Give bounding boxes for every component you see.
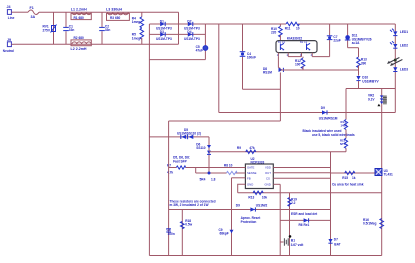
- diode D3: [156, 30, 172, 41]
- svg-text:LED1: LED1: [400, 30, 408, 34]
- svg-text:SS110: SS110: [196, 146, 206, 150]
- svg-text:L1 2.2mH: L1 2.2mH: [71, 8, 87, 12]
- svg-text:10k: 10k: [262, 195, 268, 199]
- capacitor C4: [240, 24, 256, 89]
- diode D2: [184, 20, 200, 31]
- wire step junction: [195, 168, 197, 174]
- diode D8: [263, 67, 283, 75]
- svg-text:47uF: 47uF: [196, 49, 203, 53]
- svg-text:3.67 volt: 3.67 volt: [291, 243, 305, 247]
- svg-text:L3 330uH: L3 330uH: [106, 8, 122, 12]
- svg-text:9.1V: 9.1V: [368, 97, 375, 101]
- wire opto net: [331, 172, 375, 174]
- svg-text:B2 C2: B2 C2: [300, 40, 308, 44]
- wire C4 bottom to Q-chain: [243, 88, 281, 90]
- svg-text:US1M/RS1M: US1M/RS1M: [319, 116, 338, 120]
- wire GND drop: [279, 184, 281, 255]
- svg-text:D9: D9: [236, 203, 240, 207]
- svg-text:1k: 1k: [352, 176, 356, 180]
- IC U2 controller: [245, 157, 273, 189]
- svg-text:R3 680: R3 680: [110, 16, 121, 20]
- varistor RV1: [43, 12, 57, 44]
- svg-text:NTC: NTC: [340, 142, 346, 146]
- svg-text:RS1M: RS1M: [263, 71, 272, 75]
- wire LED chain vertical: [394, 24, 396, 113]
- svg-text:US1M-TP3: US1M-TP3: [156, 37, 172, 41]
- wire node B horizontal: [280, 69, 358, 71]
- heatsink bar: [383, 95, 387, 104]
- diode D11: [345, 24, 372, 48]
- capacitor C1: [63, 12, 74, 44]
- wire node D horizontal: [219, 112, 395, 114]
- switch S1 (light arrows): [387, 58, 402, 66]
- resistor R9: [237, 146, 256, 154]
- wire AC mid vertical: [178, 12, 180, 44]
- wire U2 fb row: [232, 177, 246, 179]
- svg-text:R13: R13: [248, 195, 254, 199]
- svg-text:D1: D1: [160, 20, 164, 24]
- svg-text:D2: D2: [187, 20, 191, 24]
- choke L1 (top winding) with damping resistor R1: [71, 8, 92, 20]
- wire node E horizontal: [209, 151, 346, 153]
- diode D5 pair: [149, 128, 209, 150]
- svg-text:BAT: BAT: [334, 242, 340, 246]
- svg-text:1meg: 1meg: [132, 20, 140, 24]
- wire vertical node A: [218, 24, 220, 113]
- svg-text:a=1A: a=1A: [352, 41, 360, 45]
- wire bottom rail: [149, 255, 381, 257]
- svg-text:use 5, black solid wire leads: use 5, black solid wire leads: [312, 133, 355, 137]
- svg-text:68kpF: 68kpF: [220, 232, 229, 236]
- svg-text:Neutral: Neutral: [3, 49, 14, 53]
- diode D9: [319, 106, 338, 120]
- svg-text:33n: 33n: [69, 28, 75, 32]
- connector J4 (Line input): [7, 5, 15, 20]
- wire U1 pin2-pin3 link: [288, 56, 301, 58]
- svg-text:D3: D3: [160, 30, 164, 34]
- svg-text:GATE: GATE: [247, 166, 255, 170]
- resistor R7 on GATE wire: [167, 163, 245, 174]
- svg-text:R7: R7: [167, 163, 171, 167]
- svg-text:LED3: LED3: [400, 68, 408, 72]
- svg-text:FB: FB: [247, 176, 251, 180]
- svg-text:D4: D4: [187, 30, 191, 34]
- svg-text:ESR and load det: ESR and load det: [291, 212, 318, 216]
- LED LED3: [393, 67, 408, 71]
- wire U1 pin1 down: [277, 57, 279, 68]
- diode D4: [184, 30, 200, 41]
- resistor R12: [295, 57, 305, 70]
- svg-text:100nF: 100nF: [247, 56, 256, 60]
- svg-text:VDD: VDD: [265, 166, 271, 170]
- svg-text:1.8: 1.8: [211, 177, 216, 181]
- svg-text:Cu area for heat sink: Cu area for heat sink: [332, 183, 364, 187]
- resistor R14 upper: [341, 89, 348, 130]
- svg-text:GND: GND: [247, 182, 253, 186]
- svg-text:3A: 3A: [31, 15, 36, 19]
- wire cs net: [280, 219, 330, 221]
- resistor R13: [357, 48, 367, 76]
- svg-text:390: 390: [361, 61, 367, 65]
- wire U2 right pins: [273, 167, 330, 169]
- svg-text:R15: R15: [342, 176, 348, 180]
- capacitor C7: [327, 24, 341, 57]
- wire D11 jog: [348, 47, 359, 49]
- svg-text:22uF: 22uF: [333, 39, 340, 43]
- svg-text:R11: R11: [285, 26, 291, 30]
- dual transistor U1 KIA-type: [276, 36, 317, 57]
- svg-text:140R: 140R: [341, 123, 348, 127]
- svg-text:33n: 33n: [105, 28, 111, 32]
- capacitor C9: [219, 178, 234, 256]
- resistor R10: [271, 24, 282, 41]
- diode D13: [236, 203, 268, 211]
- connector J9 (Neutral input): [3, 38, 14, 53]
- svg-text:US1M-TP3: US1M-TP3: [156, 26, 172, 30]
- wire bridge row2: [149, 33, 205, 35]
- diode D10: [356, 76, 379, 89]
- svg-text:SENSE: SENSE: [247, 171, 257, 175]
- diode D1: [156, 20, 172, 31]
- svg-text:Fast SFP: Fast SFP: [173, 159, 188, 163]
- resistor R16: [363, 218, 384, 229]
- wire bridge bottom: [149, 59, 205, 61]
- svg-text:D7: D7: [334, 237, 338, 241]
- wire FB net: [238, 192, 382, 194]
- svg-text:OUT: OUT: [265, 171, 271, 175]
- svg-text:100n: 100n: [168, 232, 175, 236]
- wire bottom Neutral: [14, 43, 179, 45]
- box power section left: [168, 121, 170, 256]
- svg-text:R1 680: R1 680: [74, 16, 85, 20]
- wire top Line: [14, 11, 28, 13]
- box power section top: [169, 120, 281, 122]
- svg-text:2.2: 2.2: [291, 201, 296, 205]
- wire bridge row1: [149, 23, 205, 25]
- svg-text:US1M-TP3: US1M-TP3: [184, 26, 200, 30]
- bleeder resistor R5: [132, 28, 144, 44]
- resistor R15: [342, 171, 356, 180]
- svg-text:US1M/2: US1M/2: [256, 203, 268, 207]
- capacitor C5: [196, 45, 208, 53]
- resistor R8: [200, 164, 238, 182]
- wire fb right vertical: [330, 152, 332, 256]
- svg-text:CS: CS: [266, 176, 270, 180]
- choke L3 with damping resistor R3: [106, 8, 129, 21]
- svg-text:L2 2.2mH: L2 2.2mH: [71, 47, 87, 51]
- svg-text:GND: GND: [265, 182, 271, 186]
- resistor R19: [288, 197, 297, 206]
- wire bridge left vertical (long DC- bus): [148, 24, 150, 256]
- wire shunt net: [169, 209, 331, 211]
- svg-text:47k: 47k: [249, 146, 255, 150]
- svg-text:D9: D9: [321, 106, 325, 110]
- svg-text:J9: J9: [7, 38, 11, 42]
- diode D6 D7 stack: [207, 137, 211, 173]
- svg-text:R8 10: R8 10: [224, 164, 233, 168]
- fuse F1: [28, 6, 39, 19]
- wire U2 sense row: [196, 172, 227, 174]
- optocoupler U3: [375, 169, 393, 177]
- zener VR2 stack: [368, 89, 384, 256]
- LED LED1: [390, 29, 408, 36]
- svg-text:R6 Re1: R6 Re1: [299, 223, 310, 227]
- resistor R17: [181, 210, 193, 256]
- wire U2 gnd loop: [238, 184, 246, 193]
- svg-text:Line: Line: [8, 16, 15, 20]
- svg-text:KIA339/22: KIA339/22: [287, 36, 302, 40]
- svg-text:R9: R9: [237, 146, 241, 150]
- wire sense drop: [289, 193, 291, 256]
- diode D14: [299, 218, 310, 227]
- svg-text:TL431: TL431: [384, 173, 393, 177]
- LED LED2: [390, 41, 408, 48]
- svg-text:0.5w: 0.5w: [185, 222, 192, 226]
- resistor R13b: [248, 191, 267, 199]
- bleeder resistor R4: [132, 12, 144, 28]
- battery B1: [280, 235, 304, 247]
- svg-text:LED2: LED2: [400, 44, 408, 48]
- diode D12: [328, 237, 340, 246]
- svg-text:275V: 275V: [43, 28, 51, 32]
- svg-text:US1M-TP3: US1M-TP3: [184, 37, 200, 41]
- svg-text:US1M/BYV: US1M/BYV: [362, 79, 379, 83]
- svg-text:5R4: 5R4: [200, 177, 206, 181]
- svg-text:220: 220: [271, 31, 277, 35]
- svg-text:1meg: 1meg: [132, 36, 140, 40]
- svg-text:4.7k: 4.7k: [167, 170, 173, 174]
- svg-text:US1M/SS110 (2): US1M/SS110 (2): [177, 131, 201, 135]
- svg-text:Protection: Protection: [241, 220, 257, 224]
- svg-text:100: 100: [295, 63, 301, 67]
- svg-text:B1 C1: B1 C1: [278, 40, 286, 44]
- svg-text:F1: F1: [30, 6, 34, 10]
- svg-text:m 3W, 2 insulated 2 of 1W: m 3W, 2 insulated 2 of 1W: [170, 203, 209, 207]
- wire DC+ rail: [205, 23, 286, 25]
- wire bridge right vertical: [204, 24, 206, 60]
- capacitor C2: [99, 12, 110, 44]
- resistor R11: [285, 22, 300, 30]
- wire U1 pin4 to C7: [312, 56, 329, 58]
- wire node C horizontal: [346, 88, 395, 90]
- svg-text:10: 10: [296, 26, 300, 30]
- choke L2 (bottom winding) with damping resistor R2: [71, 36, 92, 51]
- svg-text:J4: J4: [7, 5, 11, 9]
- capacitor C10: [166, 228, 175, 236]
- resistor R15 lower: [340, 130, 348, 152]
- polarity triangle: [377, 104, 380, 107]
- svg-text:0.5/1Meg: 0.5/1Meg: [363, 222, 377, 226]
- node junction: [208, 172, 211, 175]
